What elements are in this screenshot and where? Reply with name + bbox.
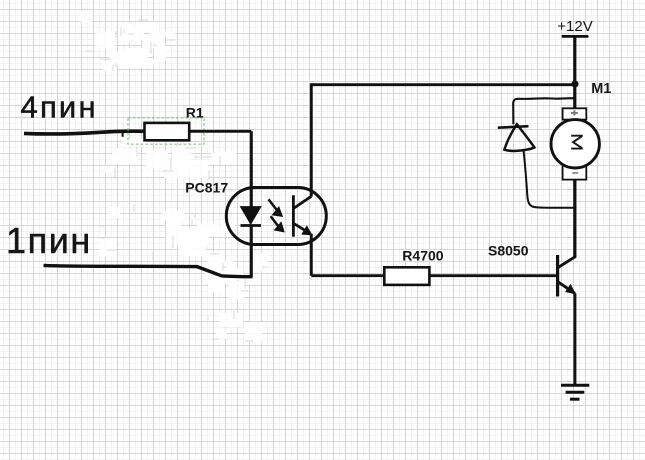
motor M1 body [551, 120, 599, 168]
wire emitter down [310, 234, 313, 276]
wire supply to motor [573, 36, 576, 108]
svg-text:R1: R1 [186, 104, 204, 120]
selection box around R1 [128, 118, 204, 144]
svg-text:4пин: 4пин [21, 90, 98, 125]
wire collector up and top rail [311, 85, 575, 197]
emitter diagonal [558, 282, 575, 294]
wire LED cathode vertical [250, 226, 253, 278]
wire R4700 to base [429, 274, 557, 277]
flyback diode D1 triangle [504, 124, 534, 151]
motor top terminal [563, 108, 587, 119]
wire emitter to ground [573, 293, 576, 385]
svg-text:M1: M1 [591, 81, 611, 97]
wire end tick [122, 133, 124, 137]
junction dot [571, 80, 578, 87]
power bar [562, 35, 589, 38]
svg-text:R4700: R4700 [402, 247, 443, 263]
wire motor to collector [573, 180, 576, 258]
wire diode anode to motor bottom (curved) [524, 151, 577, 208]
motor bottom terminal [563, 166, 587, 180]
wire LED anode vertical [250, 131, 253, 206]
svg-text:S8050: S8050 [488, 242, 529, 258]
flyback diode D1 cathode bar [498, 126, 529, 128]
emitter arrowhead [566, 285, 575, 294]
phototransistor base bar [292, 195, 295, 236]
light arrow 2 [271, 216, 279, 226]
ground [561, 384, 589, 387]
wire collector to motor [573, 180, 576, 258]
wire diode cathode to +12V node (curved) [513, 98, 575, 124]
wire optocoupler to R4700 [311, 274, 384, 277]
svg-text:+12V: +12V [557, 18, 592, 35]
wire from 1pin to optocoupler cathode [44, 265, 253, 276]
svg-text:PC817: PC817 [185, 180, 228, 196]
LED inside optocoupler [241, 207, 261, 224]
wire R1 to optocoupler LED [189, 130, 251, 133]
wire from 4pin to R1 [24, 131, 145, 134]
optocoupler U1 PC817 body [226, 188, 326, 245]
base bar [556, 255, 559, 297]
light arrow 1 [269, 199, 277, 209]
phototransistor collector [293, 196, 311, 208]
svg-text:1пин: 1пин [6, 220, 92, 261]
resistor R4700 [384, 267, 429, 285]
motor minus sign [572, 172, 578, 174]
resistor R1 [145, 123, 190, 140]
phototransistor emitter [293, 223, 307, 231]
collector diagonal [558, 257, 575, 268]
